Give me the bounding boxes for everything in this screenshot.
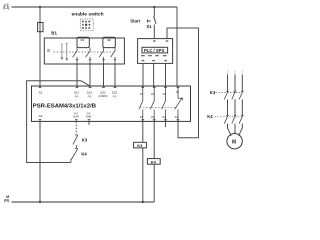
PLC tiny pin labels: [141, 55, 167, 56]
pin tick S34: [75, 119, 78, 121]
contact 13-14 NO: [139, 86, 143, 121]
node M (N) bottom rail: [12, 201, 155, 203]
terminal labels bottom row: [39, 111, 179, 119]
pushbutton S1 (start, NO): [154, 16, 156, 24]
svg-text:Start: Start: [130, 19, 141, 24]
wire S1 to PLC input: [153, 25, 155, 39]
junction 14-line on M rail: [142, 201, 144, 203]
wire 24 to K4 coil to M rail: [153, 121, 155, 202]
svg-text:PLC / SPS: PLC / SPS: [144, 48, 164, 53]
mechanical linkage dashed relay contacts: [140, 106, 178, 108]
pin tick 24: [153, 119, 156, 121]
wire B1 S21 to relay S21: [103, 64, 105, 86]
contact 33-34 NO: [162, 86, 166, 121]
motor phase line 3: [239, 75, 243, 136]
contactor K4 main contacts: [224, 115, 243, 123]
wire PLC output 3 to terminal 33: [165, 63, 167, 86]
pin tick 42: [177, 119, 180, 121]
contactor K3 main contacts: [224, 91, 243, 99]
pin tick A2: [39, 119, 42, 121]
svg-text:24: 24: [151, 115, 155, 119]
svg-text:(L1): (L1): [3, 6, 9, 10]
pin tick 13: [142, 86, 145, 88]
svg-text:(+): (+): [75, 94, 79, 98]
svg-text:K4: K4: [207, 114, 213, 119]
coil K3: [134, 142, 147, 148]
linkage dashed K3 main: [216, 92, 243, 94]
motor phase line 2: [234, 75, 236, 134]
wire S34 dashed to K3 aux contact: [75, 121, 77, 134]
pin tick A1: [39, 86, 42, 88]
annotation marks inside dashed box: [82, 21, 90, 29]
svg-text:(+): (+): [113, 94, 117, 98]
svg-text:M: M: [232, 140, 236, 146]
junction A2 on M rail: [39, 201, 41, 203]
svg-text:enable switch: enable switch: [72, 12, 104, 18]
svg-text:14: 14: [140, 115, 144, 119]
pin tick PLC top pin 1: [153, 40, 156, 42]
pin tick PLC bottom pin 2: [152, 60, 155, 62]
pin tick S22: [114, 86, 117, 88]
wire PLC output 2 to terminal 23: [153, 63, 155, 86]
pin tick S21: [102, 86, 105, 88]
svg-text:A2: A2: [39, 114, 43, 118]
wire B1 S11 to relay S11: [76, 64, 78, 86]
fuse F1: [38, 23, 43, 32]
pin tick S11: [76, 86, 79, 88]
wire feedback 42 to PLC input 2: [167, 28, 199, 138]
contact block sub-box channel 2: [103, 37, 115, 47]
stub S35: [88, 121, 90, 124]
svg-text:13: 13: [140, 92, 144, 96]
wire feedback loop S12 to K4 contact: [27, 81, 90, 163]
wire rail right end down to terminal 41: [176, 7, 178, 86]
motor M1 circle: [227, 134, 242, 149]
svg-text:42: 42: [175, 115, 179, 119]
pin tick 33: [164, 86, 167, 88]
contact 41-42 NC: [175, 86, 183, 121]
svg-text:33: 33: [162, 92, 166, 96]
enable actuator E with arrows: [61, 44, 63, 59]
pin tick 23: [153, 86, 156, 88]
controller PLC/SPS box: [138, 39, 173, 64]
wire 14 to K3 coil to M rail: [142, 121, 144, 202]
contact B1 pin S22: [111, 48, 117, 64]
svg-text:S1: S1: [147, 24, 153, 29]
wire A2 to M rail: [39, 121, 41, 202]
svg-text:34: 34: [162, 115, 166, 119]
contact K3 aux NO: [73, 135, 78, 148]
svg-text:K4: K4: [151, 159, 157, 164]
pin tick 41: [177, 86, 180, 88]
pin tick PLC bottom pin 1: [142, 60, 145, 62]
wire fuse branch from rail to A1: [39, 7, 41, 86]
svg-text:K3: K3: [210, 90, 216, 95]
svg-text:E: E: [47, 48, 50, 54]
svg-text:(N): (N): [4, 199, 9, 203]
enable switch annotation box: [80, 19, 93, 31]
switch B1 enclosure: [44, 38, 124, 64]
contact K4 aux NO: [71, 148, 78, 162]
safety relay U1 main box: [32, 86, 191, 121]
contact B1 pin S12: [86, 48, 92, 64]
junction S1 branch on rail: [153, 6, 155, 8]
motor phase line 1: [228, 75, 232, 136]
svg-text:K3: K3: [137, 143, 143, 148]
stub 34: [165, 121, 167, 127]
contact B1 pin S21: [99, 48, 105, 64]
mechanical linkage dashed B1: [54, 51, 114, 53]
svg-text:S35: S35: [86, 114, 92, 118]
pin tick 34: [164, 119, 167, 121]
wire B1 S22 to relay S22: [114, 64, 116, 86]
pin tick PLC top pin 2: [166, 40, 169, 42]
svg-text:PSR-ESAM4/3x1/1x2/B: PSR-ESAM4/3x1/1x2/B: [33, 104, 96, 110]
junction fuse branch on rail: [39, 6, 41, 8]
linkage dashed K4 main: [215, 116, 243, 118]
svg-text:(+): (+): [88, 94, 92, 98]
wire PLC output 1 to terminal 13: [142, 63, 144, 86]
contact 23-24 NO: [150, 86, 154, 121]
svg-text:K3: K3: [82, 138, 88, 143]
contact B1 pin S11: [73, 48, 79, 64]
svg-text:(GND): (GND): [99, 94, 108, 98]
svg-text:23: 23: [151, 92, 155, 96]
svg-text:41: 41: [176, 90, 180, 94]
enable actuator E letter: [0, 0, 1, 1]
phase line dotted tops: [228, 71, 243, 75]
wire B1 S12 to relay S12: [89, 64, 91, 86]
pin tick S12: [89, 86, 92, 88]
pin tick 14: [142, 119, 145, 121]
coil K4: [147, 159, 160, 165]
svg-text:A1: A1: [39, 91, 43, 95]
pin tick PLC bottom pin 3: [164, 60, 167, 62]
svg-text:S34: S34: [73, 114, 79, 118]
contact block sub-box channel 1: [77, 37, 89, 47]
svg-text:B1: B1: [51, 30, 57, 35]
wire S1 branch from rail: [153, 7, 155, 16]
node L+ (L1) supply rail: [12, 6, 178, 8]
svg-text:K4: K4: [81, 151, 87, 156]
pin tick S35: [88, 119, 91, 121]
terminal labels top row: [39, 90, 180, 98]
